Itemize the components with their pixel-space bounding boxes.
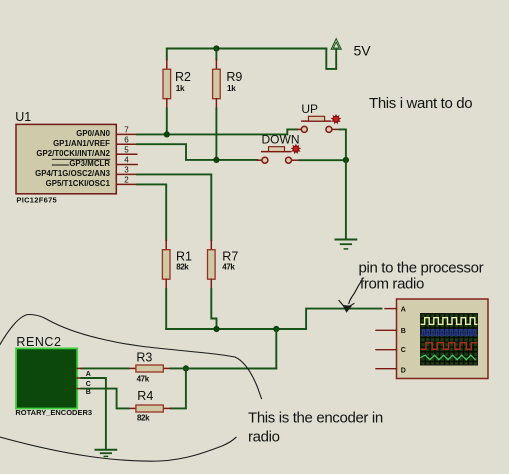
- wire top rail: [167, 48, 326, 50]
- pin 6 stub: [116, 143, 137, 145]
- svg-text:pin to the processor: pin to the processor: [359, 260, 484, 277]
- svg-text:A: A: [86, 371, 91, 378]
- node buttons-gnd junction: [343, 157, 349, 163]
- chip U1: [16, 124, 116, 193]
- svg-text:This i want to do: This i want to do: [369, 95, 472, 112]
- wire bottom bus to scope: [166, 309, 381, 329]
- wire to ground: [345, 160, 347, 239]
- wire R1 bottom: [165, 279, 167, 289]
- svg-text:RENC2: RENC2: [16, 335, 61, 349]
- pin C: [77, 377, 81, 379]
- node pin7-R2 junction: [164, 131, 170, 137]
- svg-text:ROTARY_ENCODER3: ROTARY_ENCODER3: [15, 408, 92, 417]
- svg-text:This is the encoder in: This is the encoder in: [248, 410, 383, 427]
- svg-text:2: 2: [124, 176, 129, 185]
- resistor R4: [129, 407, 136, 409]
- svg-text:GP1/AN1/VREF: GP1/AN1/VREF: [53, 139, 110, 148]
- svg-text:A: A: [401, 307, 406, 314]
- svg-text:82k: 82k: [137, 414, 150, 423]
- svg-text:UP: UP: [301, 102, 318, 116]
- svg-text:47k: 47k: [137, 375, 150, 384]
- svg-text:GP5/T1CKI/OSC1: GP5/T1CKI/OSC1: [46, 179, 111, 188]
- svg-text:B: B: [86, 389, 91, 396]
- wire R2 top lead: [166, 49, 168, 60]
- svg-text:3: 3: [124, 166, 129, 175]
- freehand loop bottom: [0, 437, 236, 462]
- trace blue: [421, 329, 477, 336]
- wire R2 bottom lead: [166, 99, 168, 109]
- svg-text:D: D: [401, 367, 406, 374]
- trace green: [421, 355, 476, 360]
- svg-text:1k: 1k: [176, 84, 185, 93]
- svg-text:82k: 82k: [176, 262, 189, 271]
- pin numbers 7 6 5 4 3 2: [124, 126, 129, 185]
- svg-text:GP3/MCLR: GP3/MCLR: [69, 159, 110, 168]
- svg-text:radio: radio: [248, 429, 280, 446]
- svg-text:GP4/T1G/OSC2/AN3: GP4/T1G/OSC2/AN3: [35, 169, 111, 178]
- ground buttons: [336, 240, 357, 249]
- pin B: [77, 388, 81, 390]
- freehand loop top: [0, 315, 262, 399]
- pin 4 stub: [116, 164, 137, 166]
- svg-text:R1: R1: [176, 249, 192, 263]
- svg-text:from radio: from radio: [360, 276, 424, 293]
- svg-text:R2: R2: [175, 70, 191, 84]
- annotation arrow head: [339, 301, 346, 309]
- wire junction down to R4: [171, 368, 186, 408]
- ground encoder: [96, 450, 117, 457]
- node R7-bus junction: [213, 326, 219, 332]
- wire pin3 to R7: [137, 174, 211, 240]
- wire pin2 to R1: [137, 184, 166, 240]
- wire B to R4: [82, 389, 129, 409]
- svg-text:4: 4: [124, 156, 129, 165]
- annotation arrow shaft: [349, 281, 362, 304]
- svg-text:R7: R7: [222, 249, 238, 263]
- resistor R2: [163, 69, 171, 99]
- power 5V: [331, 39, 341, 50]
- pin 2 stub: [116, 183, 137, 185]
- MCLR overline: [52, 158, 110, 160]
- svg-text:5V: 5V: [354, 43, 372, 59]
- wire R9 top lead: [215, 49, 217, 60]
- resistor R7: [208, 250, 216, 280]
- svg-text:R9: R9: [226, 70, 242, 84]
- wire branch down to R3 row: [186, 329, 276, 368]
- wire R9 bottom lead: [215, 99, 217, 109]
- pin 3 stub: [116, 173, 137, 175]
- pin 7 stub: [116, 133, 137, 135]
- wire pin7 to UP button: [137, 129, 297, 134]
- node branch junction: [273, 326, 279, 332]
- svg-text:U1: U1: [15, 110, 31, 124]
- wire C to ground: [82, 378, 106, 449]
- pin 5 stub: [116, 153, 136, 155]
- wire R3 right to junction: [171, 367, 277, 369]
- svg-text:R4: R4: [137, 389, 153, 403]
- wire R7 bottom jog: [210, 279, 212, 289]
- scope pin B stub: [376, 329, 397, 331]
- svg-text:GP0/AN0: GP0/AN0: [76, 129, 110, 138]
- scope pin D stub: [376, 368, 397, 370]
- svg-text:C: C: [86, 381, 91, 388]
- scope TRACE: [397, 299, 489, 379]
- wire pin6 to DOWN button: [137, 144, 257, 160]
- node R3-R4 junction: [183, 365, 189, 371]
- resistor R1: [162, 250, 170, 280]
- svg-text:DOWN: DOWN: [262, 133, 300, 147]
- svg-text:5: 5: [124, 146, 129, 155]
- pin A: [77, 367, 81, 369]
- annotation texts: [248, 95, 484, 446]
- svg-text:1k: 1k: [227, 84, 236, 93]
- wire encoder A to R3: [82, 367, 129, 369]
- node R9 top junction: [213, 45, 219, 51]
- trace yellow: [421, 318, 477, 325]
- wire UP right to gnd rail: [340, 129, 346, 160]
- svg-text:6: 6: [124, 135, 129, 144]
- svg-text:7: 7: [124, 126, 129, 135]
- svg-text:R3: R3: [136, 351, 152, 365]
- scope pin A stub: [385, 308, 397, 310]
- wire 5V jog: [326, 49, 336, 69]
- svg-text:B: B: [401, 328, 406, 335]
- node pin6-R9 junction: [213, 157, 219, 163]
- scope pin C stub: [376, 349, 397, 351]
- resistor R9: [213, 69, 221, 99]
- resistor R3: [129, 367, 136, 369]
- wire DOWN right to gnd rail: [300, 159, 346, 161]
- svg-text:GP2/T0CKI/INT/AN2: GP2/T0CKI/INT/AN2: [36, 149, 110, 158]
- svg-text:C: C: [401, 347, 406, 354]
- svg-text:PIC12F675: PIC12F675: [16, 195, 57, 204]
- trace red: [421, 343, 477, 350]
- svg-text:47k: 47k: [222, 262, 235, 271]
